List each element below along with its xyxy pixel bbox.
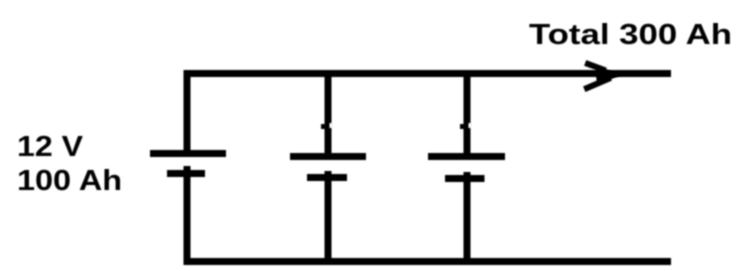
wire: battery BT2 bottom lead [325,171,332,262]
junction tick on BT3 top lead [460,124,465,129]
battery BT1 negative plate [167,170,205,177]
svg-text:100 Ah: 100 Ah [17,165,122,197]
wire: battery BT1 bottom lead [184,166,191,262]
battery BT3 positive plate [428,153,505,160]
wire: battery BT3 top lead [464,70,471,156]
wire: battery BT3 bottom lead [464,172,471,262]
battery BT2 positive plate [290,153,366,160]
battery BT3 negative plate [445,175,485,182]
svg-text:12 V: 12 V [17,131,83,163]
battery BT1 positive plate [150,150,226,157]
battery BT2 negative plate [307,174,347,181]
wire: battery BT2 top lead [325,70,332,156]
svg-text:Total 300 Ah: Total 300 Ah [529,19,732,51]
wire: top bus from node A to output [184,70,672,77]
wire: battery BT1 top lead [184,70,191,153]
wire: bottom bus return [184,258,672,265]
arrowhead: current direction on top bus [587,64,608,88]
junction tick on BT2 top lead [321,124,326,129]
